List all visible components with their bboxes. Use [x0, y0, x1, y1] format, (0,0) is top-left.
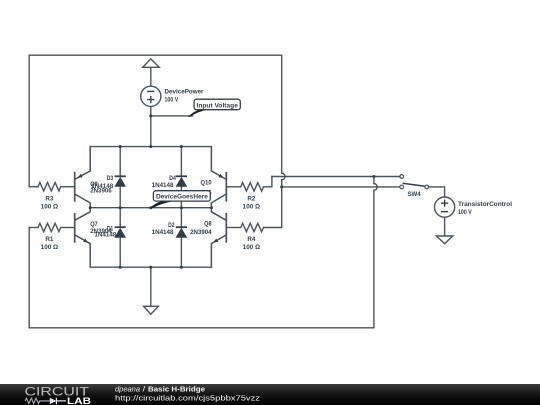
ground (bridge bottom) [144, 306, 159, 314]
wire: DevicePower bottom to top rail [150, 106, 152, 146]
svg-text:TransistorControl: TransistorControl [458, 201, 512, 208]
wire: lower switch line [282, 186, 400, 188]
svg-text:Input Voltage: Input Voltage [197, 102, 239, 109]
svg-text:DevicePower: DevicePower [165, 88, 205, 95]
diode D3 [115, 176, 126, 186]
wire hop: return vertical over lower switch line [374, 184, 377, 191]
transistor Q7 (NPN bottom-left) [75, 208, 91, 268]
wire: R3 row left [29, 186, 38, 188]
svg-text:Q8: Q8 [204, 220, 212, 227]
svg-text:http://circuitlab.com/cjs5pbbx: http://circuitlab.com/cjs5pbbx75vzz [115, 393, 260, 402]
wire: Q8 base to R4 [227, 227, 241, 229]
wire: R2 jog up to upper line [264, 177, 272, 187]
wire outer loop: left vertical, top wire, right vertical upper part [29, 55, 282, 187]
svg-text:SW4: SW4 [408, 191, 422, 198]
label D4 1N4148 [152, 175, 177, 189]
node label DeviceGoesHere [150, 191, 211, 209]
svg-text:dpeana / Basic H-Bridge: dpeana / Basic H-Bridge [115, 384, 205, 393]
wire: VCC stem [150, 67, 152, 86]
svg-text:R4: R4 [247, 236, 256, 243]
svg-text:100 Ω: 100 Ω [243, 203, 260, 210]
svg-text:R3: R3 [45, 196, 54, 203]
wire: D2 column [180, 208, 182, 268]
wire: bridge center rail [90, 207, 211, 209]
ground (TransistorControl) [436, 236, 452, 244]
label D2 1N4148 [152, 222, 175, 236]
label Q9 2N3906 [90, 181, 112, 195]
wire: TransistorControl to ground [444, 217, 446, 236]
label Q10 2N3906 [190, 180, 212, 197]
wire: R1 row left [29, 227, 38, 229]
wire: D1 column [119, 208, 121, 268]
resistor R4 [241, 223, 264, 251]
resistor R3 [38, 183, 61, 211]
svg-text:R2: R2 [247, 195, 256, 202]
wire hop: right vertical over upper switch line [282, 173, 285, 180]
transistor Q9 (PNP top-left) [75, 147, 91, 208]
wire: ground stem [150, 267, 152, 306]
resistor R1 [38, 223, 61, 251]
transistor Q10 (PNP top-right) [211, 147, 226, 208]
label D3 1N4148 [91, 175, 113, 190]
svg-text:D3: D3 [107, 175, 114, 182]
wire: bridge bottom rail [90, 266, 211, 268]
CircuitLab logo [25, 385, 92, 405]
svg-text:1N4148: 1N4148 [152, 229, 174, 236]
svg-text:1N4148: 1N4148 [152, 182, 174, 189]
svg-text:100 Ω: 100 Ω [243, 244, 260, 251]
diode D2 [176, 227, 187, 237]
diode D4 [176, 176, 187, 186]
svg-text:Q10: Q10 [201, 180, 213, 187]
diode D1 [115, 227, 126, 237]
wire: Input Voltage leader line [151, 115, 193, 117]
wire: bridge top rail [90, 146, 211, 148]
svg-text:100 Ω: 100 Ω [41, 204, 58, 211]
label Q7 2N3904 [90, 221, 112, 235]
wire: R3 to Q9 base [61, 186, 74, 188]
svg-text:R1: R1 [45, 236, 54, 243]
svg-text:1N4148: 1N4148 [94, 232, 116, 239]
wire: D3 column [119, 147, 121, 208]
wire: upper switch line [272, 176, 400, 178]
label Q8 2N3904 [190, 220, 212, 236]
wire: Q10 base to R2 [227, 186, 241, 188]
voltage source DevicePower V1 [141, 86, 204, 106]
svg-text:100 Ω: 100 Ω [41, 244, 58, 251]
svg-text:D2: D2 [168, 222, 175, 229]
transistor Q8 (NPN bottom-right) [211, 208, 226, 268]
resistor R2 [241, 183, 264, 211]
wire: return vertical top to upper line [373, 177, 375, 184]
svg-text:100 V: 100 V [165, 96, 179, 103]
svg-text:LAB: LAB [67, 396, 91, 405]
svg-text:1N4148: 1N4148 [91, 183, 113, 190]
node label Input Voltage [188, 99, 241, 117]
wire: R1 to Q7 base [61, 227, 74, 229]
VCC triangle at DevicePower top [143, 59, 160, 67]
wire: right vertical lower part down to R4 [264, 180, 282, 228]
svg-text:D4: D4 [169, 175, 176, 182]
voltage source TransistorControl V2 [435, 197, 513, 217]
svg-text:100 V: 100 V [458, 209, 472, 216]
wire: switch common to TransistorControl [429, 187, 445, 197]
wire: D4 column [180, 147, 182, 208]
svg-text:2N3904: 2N3904 [190, 229, 212, 236]
switch SW4 [400, 175, 429, 198]
junction dots [89, 114, 376, 268]
wire: bottom-left vertical, bottom wire, right return vertical [29, 190, 374, 328]
label D1 1N4148 [94, 225, 116, 238]
svg-text:DeviceGoesHere: DeviceGoesHere [156, 194, 208, 201]
